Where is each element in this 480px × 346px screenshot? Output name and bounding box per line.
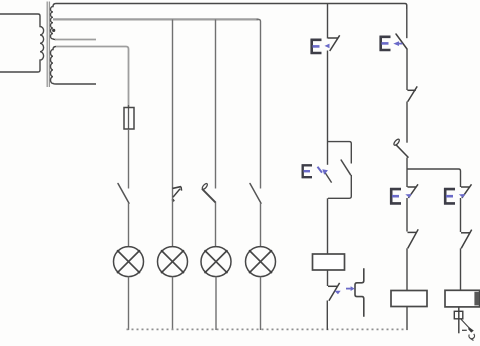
changeover contact E3 bbox=[328, 142, 351, 199]
contact C (blade with loop flag) bbox=[393, 138, 409, 157]
wire column 3 switch to lamp H3 bbox=[215, 203, 217, 247]
blue arrow E2 bbox=[393, 41, 399, 46]
blue actuate arrow E1 bbox=[325, 44, 330, 49]
wire K2 coil to return bus bbox=[406, 307, 408, 331]
relay coil K3 (partially highlighted) bbox=[445, 290, 480, 307]
junction dot on upper secondary bbox=[52, 29, 55, 32]
transformer T1 secondary winding upper bbox=[50, 4, 56, 40]
wire K2 contact C to junction bbox=[406, 158, 408, 188]
wire K3 E5 to contact F2 bbox=[460, 198, 462, 232]
transformer T1 secondary winding lower bbox=[51, 47, 97, 85]
transformer T1 primary winding bbox=[0, 14, 44, 72]
wire column 3 from tap bus bbox=[215, 19, 217, 188]
blue arrow on linkage bbox=[346, 288, 351, 290]
connection handle square bbox=[454, 311, 463, 319]
label E3 bbox=[302, 164, 312, 178]
wire K1 to return bus bbox=[326, 301, 328, 331]
contact G (NC with arrow) bbox=[328, 283, 340, 301]
wire K2 column from top bus corner bbox=[406, 5, 408, 38]
blue arrow contact G bbox=[334, 291, 340, 295]
switch S2 (closed) marks bbox=[173, 187, 182, 202]
contact F2 (NC) bbox=[461, 230, 472, 249]
relay coil K2 bbox=[391, 291, 427, 307]
switch S4 blade bbox=[250, 184, 261, 204]
mouse cursor bbox=[461, 319, 475, 340]
fuse F1 bbox=[124, 105, 134, 130]
wire K1 column from top bus bbox=[327, 4, 329, 39]
label E2 bbox=[380, 36, 391, 51]
wire column 2 from tap bus bbox=[172, 19, 174, 199]
blue mark E3 bbox=[318, 167, 323, 173]
wire junction to K3 column bbox=[407, 169, 461, 187]
wire tap bus y=19.4 bbox=[53, 18, 259, 20]
wire K2 contact B to contact C bbox=[406, 102, 408, 143]
lamp H4 bbox=[246, 247, 276, 277]
lamp H3 bbox=[201, 247, 231, 277]
wire column 1 switch to lamp H1 bbox=[128, 203, 130, 247]
label E5 bbox=[444, 188, 455, 205]
wire column 4 lamp to return bus bbox=[260, 277, 262, 330]
lamp H2 bbox=[158, 247, 188, 277]
wire K1 contact to changeover bbox=[327, 51, 329, 165]
wire column 4 from tap bus corner bbox=[257, 19, 261, 188]
lamp H1 bbox=[114, 247, 144, 277]
contact B (NC) bbox=[407, 86, 417, 101]
contact E5 (NC with arrow) bbox=[461, 184, 472, 198]
wire upper secondary lower stub (gray) bbox=[55, 39, 96, 41]
switch S1 blade bbox=[118, 184, 129, 204]
transformer T1 core bbox=[47, 2, 49, 88]
label E1 bbox=[311, 39, 322, 54]
wire K3 coil bottom bbox=[458, 307, 460, 333]
auxiliary linkage symbol (S-shape) right of coil K1 bbox=[355, 268, 364, 317]
wire K1 coil to contact G bbox=[327, 270, 329, 286]
relay coil K1 bbox=[313, 254, 345, 270]
contact F1 (NC) bbox=[408, 229, 419, 248]
wire column 2 switch to lamp H2 bbox=[172, 199, 174, 247]
label E4 bbox=[390, 188, 401, 205]
contact E4 (NC with arrow) bbox=[408, 184, 419, 198]
contact E2 (NO blade) bbox=[396, 34, 407, 49]
wire column 1 lamp to return bus bbox=[128, 277, 130, 330]
wire column 2 lamp to return bus bbox=[172, 277, 174, 330]
changeover blade arrow bbox=[324, 171, 331, 182]
wire top supply bus y=3.5 bbox=[56, 4, 407, 10]
wire K1 changeover to coil bbox=[327, 198, 329, 254]
wire K2 F1 to coil K2 bbox=[406, 248, 408, 290]
wire column 1 fuse to switch S1 bbox=[128, 129, 130, 189]
switch S3 blade with flag bbox=[201, 183, 215, 203]
wire K3 F2 to coil K3 bbox=[460, 248, 462, 290]
dotted return bus bbox=[127, 328, 408, 330]
wire column 4 switch to lamp H4 bbox=[260, 203, 262, 247]
wire K2 E4 to contact F1 bbox=[406, 198, 408, 232]
contact E1 (NC) bbox=[328, 35, 340, 51]
wire column 3 lamp to return bus bbox=[215, 277, 217, 330]
wire K2 E2 to contact B bbox=[406, 49, 408, 90]
wire lower secondary feed to fuse (gray) bbox=[56, 47, 129, 108]
